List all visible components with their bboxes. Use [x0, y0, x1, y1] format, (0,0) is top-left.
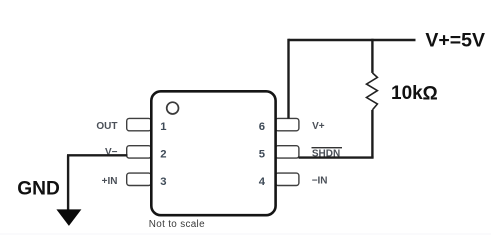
svg-text:−IN: −IN [312, 176, 328, 187]
svg-text:4: 4 [259, 176, 266, 188]
svg-text:V+=5V: V+=5V [425, 29, 485, 51]
svg-text:V+: V+ [312, 121, 325, 132]
svg-text:GND: GND [17, 179, 60, 200]
svg-text:Not to scale: Not to scale [149, 219, 205, 230]
svg-text:3: 3 [160, 176, 166, 188]
svg-text:2: 2 [160, 148, 166, 160]
svg-text:10k: 10k [391, 83, 423, 104]
svg-text:OUT: OUT [96, 121, 117, 132]
svg-text:+IN: +IN [102, 176, 118, 187]
svg-text:5: 5 [259, 148, 265, 160]
svg-text:6: 6 [259, 121, 265, 133]
svg-text:Ω: Ω [423, 84, 438, 105]
svg-text:1: 1 [160, 121, 166, 133]
